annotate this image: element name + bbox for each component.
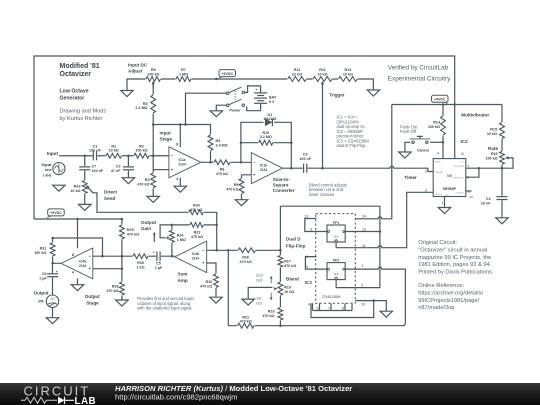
svg-text:C1: C1 <box>93 144 98 148</box>
svg-text:1N4148: 1N4148 <box>263 117 276 121</box>
op-amp IC4b <box>175 241 207 273</box>
svg-text:R1: R1 <box>111 144 116 148</box>
svg-text:R11: R11 <box>319 68 326 72</box>
svg-text:+9VDC: +9VDC <box>221 72 233 76</box>
op-amp IC1a <box>169 143 201 181</box>
svg-text:470 kΩ: 470 kΩ <box>216 172 228 176</box>
resistor R34 <box>188 204 204 216</box>
svg-text:12: 12 <box>304 215 308 219</box>
svg-text:470 kΩ: 470 kΩ <box>262 314 274 318</box>
node Input label <box>47 151 59 156</box>
node Output Gain label <box>141 220 157 242</box>
resistor R12 <box>287 68 307 82</box>
svg-text:R33: R33 <box>74 184 81 188</box>
ground <box>242 299 254 305</box>
svg-text:R23: R23 <box>194 231 201 235</box>
resistor R1 <box>106 144 123 159</box>
resistor R29 <box>119 225 139 240</box>
wire <box>282 166 433 171</box>
svg-text:R8: R8 <box>220 168 225 172</box>
svg-text:10 kΩ: 10 kΩ <box>70 189 80 193</box>
svg-text:4: 4 <box>308 302 310 306</box>
svg-text:13: 13 <box>362 228 366 232</box>
resistor R15 <box>487 122 505 139</box>
svg-text:47 nF: 47 nF <box>111 169 121 173</box>
wire <box>207 263 216 297</box>
svg-text:DISCHARGE: DISCHARGE <box>453 165 464 168</box>
svg-text:Online Reference:: Online Reference: <box>418 283 464 289</box>
svg-text:NE555P: NE555P <box>443 187 457 191</box>
svg-text:11: 11 <box>362 244 366 248</box>
svg-text:Stage: Stage <box>160 137 173 142</box>
wire <box>153 125 210 163</box>
node Blend note <box>309 182 347 196</box>
svg-text:C2: C2 <box>116 165 121 169</box>
resistor R21 <box>237 315 254 329</box>
node 2nd Oct label <box>256 272 273 283</box>
svg-text:http://circuitlab.com/c982pnc6: http://circuitlab.com/c982pnc68qwjm <box>115 393 237 402</box>
wire <box>466 167 502 169</box>
footer bar <box>0 383 540 405</box>
svg-text:470 kΩ: 470 kΩ <box>240 320 252 324</box>
voltage source V1 (signal) <box>41 162 65 177</box>
svg-text:https://archive.org/details/: https://archive.org/details/ <box>418 291 483 297</box>
potentiometer R19 <box>274 282 294 296</box>
capacitor C4 <box>481 196 508 205</box>
svg-text:Direct: Direct <box>104 190 117 195</box>
svg-text:5: 5 <box>468 190 470 194</box>
switch SW1 (Power) <box>226 87 244 112</box>
svg-text:10 kΩ: 10 kΩ <box>284 290 294 294</box>
wire <box>247 103 261 110</box>
svg-text:Experimental Circuitry: Experimental Circuitry <box>388 75 451 82</box>
ground <box>71 285 83 291</box>
wire <box>305 219 327 232</box>
wire <box>355 301 386 312</box>
wire <box>335 280 337 288</box>
svg-text:C5: C5 <box>156 262 161 266</box>
resistor R31 <box>34 242 55 256</box>
svg-text:2134: 2134 <box>79 264 87 268</box>
svg-text:R6: R6 <box>151 68 156 72</box>
svg-text:1 µF: 1 µF <box>155 266 163 270</box>
resistor R5 <box>135 95 156 114</box>
wire <box>91 190 217 250</box>
svg-text:Oct: Oct <box>256 278 263 283</box>
svg-text:100 nF: 100 nF <box>92 169 104 173</box>
svg-text:R24: R24 <box>177 234 185 238</box>
svg-text:Generator: Generator <box>60 96 85 102</box>
svg-text:10 nF: 10 nF <box>481 201 491 205</box>
wire <box>179 178 181 187</box>
svg-text:470 kΩ: 470 kΩ <box>190 208 202 212</box>
svg-text:470 kΩ: 470 kΩ <box>226 188 238 192</box>
svg-text:CONTROL: CONTROL <box>455 192 464 194</box>
svg-text:7: 7 <box>467 164 469 168</box>
svg-text:IC3: IC3 <box>305 280 313 285</box>
svg-text:R3: R3 <box>145 178 150 182</box>
diode D1 <box>263 113 276 127</box>
svg-text:R10: R10 <box>262 131 269 135</box>
svg-text:1981 Edition, pages 93 & 94.: 1981 Edition, pages 93 & 94. <box>418 262 491 268</box>
node pin numbers IC2 <box>425 152 474 206</box>
node 1st Oct label <box>256 293 273 306</box>
wire <box>216 105 226 111</box>
svg-text:R15: R15 <box>490 128 497 132</box>
svg-text:470 kΩ: 470 kΩ <box>200 285 212 289</box>
ground <box>174 186 186 192</box>
svg-text:CLK: CLK <box>334 236 339 239</box>
ground <box>79 204 91 210</box>
svg-text:Sum: Sum <box>178 272 188 277</box>
svg-text:R34: R34 <box>193 204 201 208</box>
svg-text:Drawing and Mods: Drawing and Mods <box>60 109 107 115</box>
node Multivibrator label <box>461 113 489 118</box>
svg-text:9 V: 9 V <box>269 100 275 104</box>
svg-text:Cancel: Cancel <box>417 148 429 152</box>
svg-text:6: 6 <box>467 175 469 179</box>
svg-text:Converter: Converter <box>273 188 295 193</box>
svg-text:FF2: FF2 <box>333 259 339 263</box>
svg-text:by Kurtus Richter: by Kurtus Richter <box>60 116 103 122</box>
svg-text:1 kHz: 1 kHz <box>43 173 52 177</box>
flip-flop FF1 <box>327 221 345 242</box>
svg-text:IC4b: IC4b <box>192 252 199 256</box>
svg-text:R31: R31 <box>40 247 47 251</box>
svg-text:R2: R2 <box>139 144 144 148</box>
resistor R8 <box>214 159 231 176</box>
wire <box>311 301 374 318</box>
resistor R7 <box>176 68 192 82</box>
capacitor C2 <box>111 165 134 173</box>
svg-text:R17: R17 <box>284 260 291 264</box>
node Trigger label <box>329 93 345 98</box>
svg-text:R28: R28 <box>112 285 119 289</box>
svg-text:HARRISON RICHTER (Kurtus) / Mo: HARRISON RICHTER (Kurtus) / Modded Low-O… <box>115 384 352 393</box>
logo diode <box>58 397 65 404</box>
IC U2 (NE555P timer) <box>433 159 466 197</box>
svg-text:+9VDC: +9VDC <box>50 211 62 215</box>
wire <box>228 267 405 325</box>
svg-text:R13: R13 <box>345 68 352 72</box>
wire <box>466 168 479 177</box>
capacitor C5 <box>153 250 163 270</box>
svg-text:R4: R4 <box>216 139 222 143</box>
wire <box>336 192 433 247</box>
wire <box>179 125 181 148</box>
svg-text:Verified by CircuitLab: Verified by CircuitLab <box>388 64 449 71</box>
svg-text:1 kΩ: 1 kΩ <box>136 266 144 270</box>
wire <box>501 105 503 218</box>
wire <box>355 105 392 219</box>
capacitor C7 <box>79 165 104 173</box>
resistor R9 <box>226 178 244 194</box>
svg-text:IC1b: IC1b <box>260 163 267 167</box>
wire <box>127 79 216 91</box>
node Push-On/Push-Off label <box>400 124 418 134</box>
resistor R14 <box>428 116 446 136</box>
potentiometer R33 <box>70 180 90 194</box>
wire <box>466 190 472 192</box>
svg-text:THRESHOLD: THRESHOLD <box>453 177 465 179</box>
svg-text:10 kΩ: 10 kΩ <box>317 73 327 77</box>
wire <box>430 141 443 143</box>
wire <box>502 158 513 168</box>
resistor R18 <box>262 307 283 321</box>
svg-text:V: V <box>51 296 54 301</box>
node Blend label <box>286 277 299 282</box>
svg-text:99ICProjects1981/page/: 99ICProjects1981/page/ <box>418 298 479 304</box>
resistor R23 <box>190 222 204 239</box>
svg-text:TRIGGER: TRIGGER <box>435 172 444 174</box>
IC U3 dashed box (CD4013BM) <box>316 214 356 304</box>
potentiometer R11 <box>313 68 333 87</box>
wire <box>53 263 62 317</box>
svg-text:100 nF: 100 nF <box>299 157 311 161</box>
ground <box>380 311 392 317</box>
svg-text:2: 2 <box>306 255 308 259</box>
wire <box>241 122 291 168</box>
svg-text:RESET: RESET <box>435 161 442 163</box>
resistor R17 <box>277 255 296 268</box>
wire <box>280 205 380 207</box>
wire <box>160 225 217 238</box>
wire <box>444 197 446 208</box>
svg-text:Original Circuit:: Original Circuit: <box>418 240 457 246</box>
svg-text:2.2 MΩ: 2.2 MΩ <box>135 106 147 110</box>
ground <box>399 152 411 158</box>
resistor R13 <box>338 68 358 82</box>
svg-text:22 kΩ: 22 kΩ <box>292 73 302 77</box>
svg-text:CLK: CLK <box>334 273 339 276</box>
svg-text:lower octaves.: lower octaves. <box>309 192 335 197</box>
wire <box>127 156 129 178</box>
svg-text:Input: Input <box>47 151 59 156</box>
svg-text:555: 555 <box>447 174 453 178</box>
svg-text:9: 9 <box>310 228 312 232</box>
svg-text:Send: Send <box>104 196 115 201</box>
svg-text:2134: 2134 <box>192 257 200 261</box>
node pin numbers IC3 <box>304 214 366 310</box>
svg-text:Stage: Stage <box>86 301 99 306</box>
wire <box>93 255 175 257</box>
wire <box>241 142 291 144</box>
svg-text:R9: R9 <box>234 183 239 187</box>
node Output label <box>34 290 50 295</box>
node Input DC Adjust label <box>128 62 148 73</box>
wire <box>53 238 103 256</box>
svg-text:Rate: Rate <box>488 146 498 151</box>
svg-text:+: + <box>256 88 258 92</box>
wire <box>186 93 227 124</box>
svg-text:GND: GND <box>445 195 450 197</box>
ground <box>121 91 133 97</box>
node Verified note <box>388 64 451 82</box>
svg-text:+: + <box>153 250 155 254</box>
svg-text:2: 2 <box>425 169 427 173</box>
svg-text:"Octavizer" circuit in annual: "Octavizer" circuit in annual <box>418 248 487 254</box>
power flag +9VDC <box>217 70 236 79</box>
svg-text:IC4a: IC4a <box>79 259 86 263</box>
svg-text:2134: 2134 <box>178 163 186 167</box>
resistor R3 <box>137 173 156 189</box>
wire <box>52 238 54 263</box>
ground <box>53 185 65 191</box>
svg-text:VM: VM <box>38 299 44 303</box>
svg-text:Multivibrator: Multivibrator <box>461 113 489 118</box>
wire <box>34 219 122 300</box>
wire <box>248 287 272 299</box>
svg-text:Timer: Timer <box>404 175 417 180</box>
resistor R32 <box>200 274 219 289</box>
svg-text:IC1a: IC1a <box>179 158 186 162</box>
ground <box>147 196 159 202</box>
power flag +9VDC <box>45 209 64 219</box>
svg-text:Push-Off: Push-Off <box>400 129 417 134</box>
svg-text:100 kΩ: 100 kΩ <box>147 73 159 77</box>
svg-text:4: 4 <box>72 270 75 274</box>
wire <box>171 225 173 256</box>
svg-text:Output: Output <box>85 294 101 299</box>
svg-text:magazine 99 IC Projects, the: magazine 99 IC Projects, the <box>418 255 491 261</box>
svg-text:1: 1 <box>441 201 443 205</box>
svg-text:8: 8 <box>342 307 344 311</box>
wire <box>59 155 169 157</box>
svg-text:R7: R7 <box>181 68 186 72</box>
svg-text:100 kΩ: 100 kΩ <box>135 149 147 153</box>
ground <box>210 297 222 303</box>
svg-text:with the unaltered input signa: with the unaltered input signal. <box>137 306 192 311</box>
svg-text:LAB: LAB <box>75 396 97 405</box>
wire <box>345 231 380 233</box>
node Input Stage label <box>160 130 173 141</box>
wire <box>405 142 410 152</box>
svg-text:Adjust: Adjust <box>128 69 143 74</box>
wire <box>227 250 229 325</box>
svg-text:Blend: Blend <box>286 277 299 282</box>
node Original Circuit note <box>418 240 494 311</box>
svg-text:+9VDC: +9VDC <box>434 98 446 102</box>
node Rate label <box>488 146 498 151</box>
ground <box>235 200 247 206</box>
potentiometer R16 <box>485 151 508 165</box>
svg-text:CD4013BM: CD4013BM <box>322 295 341 299</box>
svg-text:dual D Flip-Flop.: dual D Flip-Flop. <box>337 143 367 148</box>
svg-text:470 kΩ: 470 kΩ <box>191 235 203 239</box>
svg-text:1 µF: 1 µF <box>39 276 47 280</box>
wire <box>34 56 455 219</box>
svg-text:470 kΩ: 470 kΩ <box>127 233 139 237</box>
svg-text:Printed by Davis Publications.: Printed by Davis Publications. <box>418 270 494 276</box>
svg-text:OUTPUT: OUTPUT <box>435 194 443 196</box>
svg-text:470 kΩ: 470 kΩ <box>240 260 252 264</box>
svg-text:C7: C7 <box>92 165 97 169</box>
svg-text:100 kΩ: 100 kΩ <box>34 251 46 255</box>
node Dual D Flip-Flop label <box>286 237 306 249</box>
wire <box>244 86 260 93</box>
svg-text:470 kΩ: 470 kΩ <box>284 264 296 268</box>
svg-text:100 nF: 100 nF <box>89 149 101 153</box>
svg-text:Amp: Amp <box>178 278 188 283</box>
ground <box>496 218 508 224</box>
logo resistor zigzag <box>21 397 57 403</box>
resistor R28 <box>106 282 125 296</box>
ground <box>116 300 128 306</box>
svg-text:8: 8 <box>72 253 74 257</box>
svg-text:Input: Input <box>160 130 172 135</box>
svg-text:5: 5 <box>306 265 308 269</box>
op-amp IC4a <box>61 248 93 279</box>
wire <box>152 84 154 196</box>
ground <box>46 318 58 324</box>
capacitor C3 <box>299 153 311 173</box>
svg-text:Trigger: Trigger <box>329 93 345 98</box>
svg-text:Flip-Flop: Flip-Flop <box>286 244 306 249</box>
wire <box>242 175 252 200</box>
ground <box>367 90 379 96</box>
svg-text:2134: 2134 <box>260 168 268 172</box>
power flag +9VDC <box>432 95 450 104</box>
ground <box>122 178 134 184</box>
svg-text:BAT: BAT <box>269 96 277 100</box>
capacitor C1 <box>89 144 101 160</box>
svg-text:1 MΩ: 1 MΩ <box>177 238 186 242</box>
svg-text:Oct: Oct <box>256 301 263 306</box>
resistor R2 <box>134 144 150 159</box>
svg-text:470 kΩ: 470 kΩ <box>137 182 149 186</box>
wire <box>322 84 324 168</box>
svg-text:R26: R26 <box>242 256 249 260</box>
wire <box>84 156 86 205</box>
svg-text:Output: Output <box>141 220 157 225</box>
svg-text:R5: R5 <box>143 102 148 106</box>
svg-text:4: 4 <box>437 152 439 156</box>
battery BAT 9V <box>254 88 277 104</box>
voltmeter VM <box>38 295 59 307</box>
svg-text:14: 14 <box>362 214 366 218</box>
svg-text:4: 4 <box>176 177 179 181</box>
wire <box>77 219 79 248</box>
svg-text:Octavizer: Octavizer <box>60 71 92 78</box>
svg-text:6: 6 <box>317 307 319 311</box>
node Sum Amp label <box>178 272 188 284</box>
node Provides note <box>137 296 195 310</box>
svg-text:10 kΩ: 10 kΩ <box>109 149 119 153</box>
switch SW2 (Cancel pushbutton) <box>410 136 430 152</box>
svg-text:R12: R12 <box>294 68 301 72</box>
svg-text:Output: Output <box>34 290 50 295</box>
wire <box>207 249 281 251</box>
resistor R26 <box>238 247 256 264</box>
svg-text:470 kΩ: 470 kΩ <box>106 289 118 293</box>
op-amp IC1b <box>251 153 282 184</box>
svg-text:Modified '81: Modified '81 <box>60 63 100 70</box>
svg-text:Square: Square <box>273 183 289 188</box>
resistor R4 <box>207 135 227 152</box>
svg-text:Dual D: Dual D <box>286 237 301 242</box>
wire <box>201 161 251 163</box>
svg-text:R18: R18 <box>268 310 275 314</box>
svg-text:R30: R30 <box>137 261 144 265</box>
node IC list note <box>337 115 370 149</box>
potentiometer R24 <box>167 230 186 243</box>
svg-text:+: + <box>56 270 58 274</box>
svg-text:8: 8 <box>176 143 178 147</box>
node Timer label <box>404 175 417 180</box>
wire <box>392 104 502 106</box>
svg-text:2.2 MΩ: 2.2 MΩ <box>260 135 272 139</box>
wire <box>313 303 353 310</box>
